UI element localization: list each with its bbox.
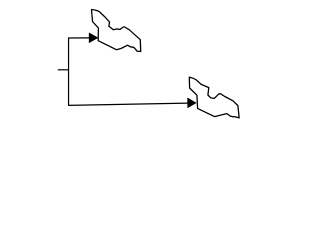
arrowhead into cloud node 2 (188, 98, 197, 108)
arrowhead into cloud node 1 (89, 33, 98, 43)
branch wire to cloud node 2 (68, 103, 188, 105)
cloud node 1 (92, 10, 141, 52)
vertical trunk wire (68, 38, 70, 106)
cloud node 2 (189, 77, 239, 118)
branch wire to cloud node 1 (68, 37, 90, 39)
root stub tick (58, 69, 69, 71)
